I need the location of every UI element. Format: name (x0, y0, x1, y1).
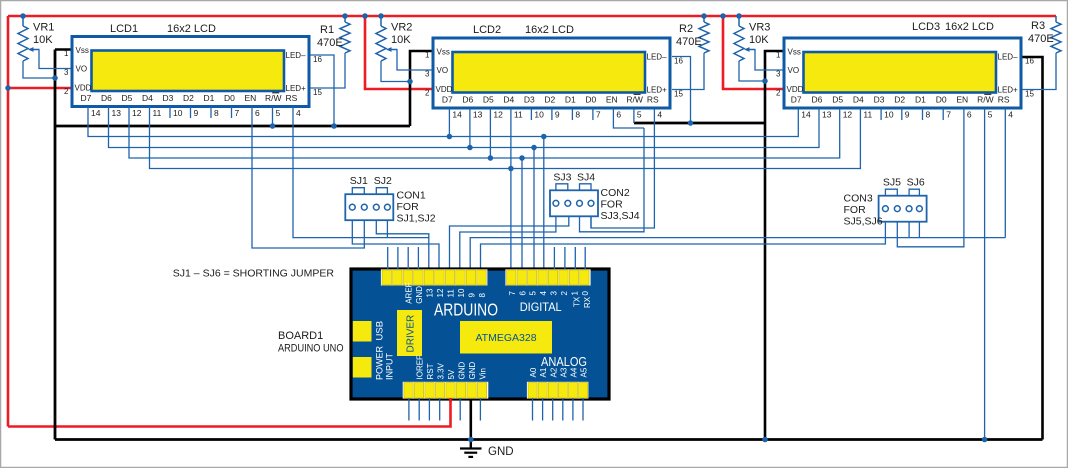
svg-text:11: 11 (446, 289, 455, 298)
svg-text:1: 1 (425, 51, 430, 60)
svg-text:D1: D1 (204, 93, 215, 103)
svg-text:GND: GND (488, 446, 514, 458)
svg-text:D2: D2 (894, 95, 905, 105)
svg-text:GND: GND (458, 362, 467, 380)
svg-text:D7: D7 (442, 95, 453, 105)
wire Arduino pin6 to D5 bus (521, 158, 523, 270)
node LCD2 p13/D6 junction (467, 145, 473, 151)
svg-text:LCD3: LCD3 (912, 21, 940, 33)
svg-text:3: 3 (64, 68, 69, 77)
svg-text:GND: GND (415, 286, 424, 304)
svg-text:VO: VO (76, 65, 88, 74)
wire LCD3 D3 stub (880, 109, 882, 121)
wire LCD2 p11 tap through to Arduino pin7 (510, 109, 512, 270)
svg-text:6: 6 (967, 110, 972, 120)
wire +5V bottom run to Arduino 5V pin (8, 398, 451, 427)
svg-text:13: 13 (425, 288, 434, 297)
wire VR2 wiper to VO2 (397, 50, 434, 71)
svg-text:13: 13 (822, 110, 832, 120)
wire +5V top bus (8, 15, 1056, 18)
wire Arduino pin10 to CON2 pin1 (460, 216, 556, 270)
svg-text:10: 10 (534, 110, 544, 120)
node GND junction at ground symbol (468, 437, 474, 443)
wire EN1 to CON1 pin2 (252, 107, 364, 249)
svg-text:14: 14 (91, 108, 101, 118)
svg-text:VDD: VDD (787, 85, 804, 94)
svg-text:10: 10 (884, 110, 894, 120)
wire CON1 pin1 to Arduino pin12 (352, 220, 439, 270)
node R2/+5V junction (701, 13, 707, 19)
wire CON3 pin4 stub to RS bus (918, 222, 920, 238)
wire VR1 bottom to GND (23, 61, 55, 78)
node R1/+5V junction (342, 13, 348, 19)
svg-text:3: 3 (776, 70, 781, 79)
wire EN bus (Arduino pin8 - CON3 pin1) (481, 222, 886, 270)
svg-text:16x2 LCD: 16x2 LCD (167, 23, 216, 35)
wire LED- LCD1 to GND (311, 55, 335, 126)
wire Arduino 5V pin (red stub) (449, 398, 452, 402)
svg-text:470E: 470E (317, 37, 343, 49)
wire Arduino pin5 to D6 bus (533, 148, 535, 270)
svg-text:POWER: POWER (375, 345, 385, 380)
svg-text:LCD2: LCD2 (473, 24, 501, 36)
wire R/W2 to GND (633, 109, 635, 124)
svg-text:R/W: R/W (977, 95, 994, 105)
svg-text:4: 4 (296, 108, 301, 118)
potentiometer VR2 (376, 16, 398, 61)
wire GND Vss2 stub and drop (410, 51, 434, 126)
node GND 765 bottom junction (762, 437, 768, 443)
svg-text:1: 1 (571, 291, 580, 296)
svg-text:EN: EN (956, 95, 968, 105)
svg-text:LED–: LED– (647, 53, 668, 62)
svg-text:15: 15 (1025, 90, 1034, 99)
svg-text:2: 2 (64, 87, 69, 96)
svg-text:VR2: VR2 (391, 22, 412, 34)
wire VDD LCD1 branch (8, 87, 73, 90)
node LED-1/GND junction (331, 123, 337, 129)
svg-text:7: 7 (235, 108, 240, 118)
wire VR3 bottom to GND (739, 61, 765, 81)
wire +5V left vertical (7, 16, 10, 427)
svg-text:16x2 LCD: 16x2 LCD (525, 24, 574, 36)
wire R1 to LED+ LCD1 (311, 53, 346, 88)
svg-text:10K: 10K (33, 34, 53, 46)
wire LCD3 D0 stub (942, 109, 944, 121)
svg-text:A2: A2 (549, 367, 558, 377)
svg-text:BOARD1: BOARD1 (278, 330, 323, 342)
svg-text:4: 4 (539, 291, 548, 296)
wire LCD1 D0 stub (231, 107, 233, 119)
wire R/W3 to GND bottom bus (984, 109, 986, 440)
node LCD2 p14/D7 junction (447, 134, 453, 140)
svg-text:R/W: R/W (626, 95, 643, 105)
svg-text:LED+: LED+ (647, 86, 668, 95)
svg-text:470E: 470E (1028, 33, 1054, 45)
svg-text:D4: D4 (503, 95, 514, 105)
svg-text:D4: D4 (142, 93, 153, 103)
wire LCD2 D1 stub (571, 109, 573, 121)
svg-text:5: 5 (529, 291, 538, 296)
svg-text:FOR: FOR (844, 204, 867, 216)
svg-text:INPUT: INPUT (385, 352, 395, 380)
svg-text:11: 11 (863, 110, 872, 120)
svg-text:D6: D6 (812, 95, 823, 105)
svg-text:10K: 10K (749, 34, 769, 46)
svg-text:RS: RS (647, 95, 659, 105)
svg-text:DRIVER: DRIVER (406, 315, 417, 353)
svg-text:EN: EN (606, 95, 618, 105)
connector CON2 (550, 190, 598, 216)
svg-text:RS: RS (286, 93, 298, 103)
wire GND Arduino GND pin drop (469, 398, 472, 440)
svg-text:2: 2 (560, 291, 569, 296)
node VR2/GND junction (407, 79, 413, 85)
svg-text:LCD1: LCD1 (110, 23, 138, 35)
svg-text:5: 5 (988, 110, 993, 120)
resistor R1 470E (340, 16, 350, 53)
svg-text:R3: R3 (1031, 20, 1045, 32)
svg-text:470E: 470E (676, 36, 702, 48)
svg-text:14: 14 (452, 110, 462, 120)
svg-text:D3: D3 (524, 95, 535, 105)
wire LCD2 D0 stub (592, 109, 594, 121)
svg-text:10K: 10K (391, 34, 411, 46)
svg-text:SJ5,SJ6: SJ5,SJ6 (844, 216, 883, 228)
svg-text:RX: RX (583, 296, 592, 308)
wire CON1 pin3 to Arduino pin13 (376, 220, 429, 270)
LCD module LCD2 (433, 38, 670, 108)
svg-text:9: 9 (194, 108, 199, 118)
svg-text:2: 2 (425, 89, 430, 98)
svg-text:10: 10 (457, 288, 466, 297)
svg-text:Vss: Vss (788, 48, 801, 57)
node VR2/+5V junction (378, 13, 384, 19)
svg-text:7: 7 (946, 110, 951, 120)
wire GND Vss3 stub and long drop (765, 51, 785, 440)
wire CON2 pin3 to EN2 (580, 128, 645, 232)
svg-text:0: 0 (581, 291, 590, 296)
svg-text:D3: D3 (874, 95, 885, 105)
svg-text:Vin: Vin (479, 368, 488, 379)
svg-text:AREF: AREF (404, 282, 413, 303)
svg-text:D2: D2 (183, 93, 194, 103)
wire LCD2 D3 stub (530, 109, 532, 121)
svg-text:A1: A1 (539, 367, 548, 377)
svg-text:SJ6: SJ6 (907, 177, 925, 189)
wire R2 to LED+ LCD2 (672, 53, 704, 90)
svg-text:SJ3,SJ4: SJ3,SJ4 (601, 210, 640, 222)
wire RS bus (Arduino pin9 - RS3) (470, 238, 1005, 270)
Arduino unconnected top-left stubs (387, 247, 389, 270)
svg-text:SJ1,SJ2: SJ1,SJ2 (397, 213, 436, 225)
svg-text:15: 15 (313, 88, 322, 97)
svg-text:SJ4: SJ4 (577, 171, 595, 183)
wire LCD2 D2 stub (551, 109, 553, 121)
svg-text:8: 8 (926, 110, 931, 120)
wire GND mid bus left segment (55, 125, 410, 128)
wire LCD1 D3 stub (169, 107, 171, 119)
svg-text:VO: VO (437, 66, 449, 75)
wire D7 bus (LCD1 p14 - LCD3 p14) (88, 107, 798, 137)
svg-text:11: 11 (514, 110, 523, 120)
resistor R2 470E (699, 16, 709, 53)
svg-text:LED+: LED+ (286, 84, 307, 93)
svg-text:9: 9 (555, 110, 560, 120)
svg-text:3.3V: 3.3V (437, 362, 446, 379)
svg-text:D4: D4 (853, 95, 864, 105)
svg-text:TX: TX (572, 296, 581, 307)
svg-text:7: 7 (596, 110, 601, 120)
svg-text:SJ3: SJ3 (553, 171, 571, 183)
node LED-2/GND junction (688, 120, 694, 126)
svg-text:8: 8 (575, 110, 580, 120)
wire Arduino pin11 to CON2 pin2 (450, 216, 569, 270)
svg-text:A4: A4 (570, 367, 579, 377)
svg-text:R1: R1 (320, 24, 334, 36)
svg-text:7: 7 (508, 291, 517, 296)
svg-text:VR1: VR1 (33, 22, 54, 34)
svg-text:6: 6 (518, 291, 527, 296)
svg-text:Vss: Vss (76, 46, 89, 55)
svg-text:9: 9 (467, 293, 476, 298)
svg-text:CON1: CON1 (397, 190, 426, 202)
svg-text:2: 2 (776, 89, 781, 98)
wire GND mid bus right segment (634, 122, 765, 125)
wire D5 bus (LCD1 p12 - LCD3 p12) (129, 107, 840, 159)
svg-text:DIGITAL: DIGITAL (520, 300, 562, 314)
node R/W3/GND junction (982, 437, 988, 443)
svg-text:D2: D2 (544, 95, 555, 105)
svg-text:6: 6 (616, 110, 621, 120)
svg-text:12: 12 (132, 108, 142, 118)
connector CON3 (879, 196, 927, 222)
svg-text:12: 12 (436, 288, 445, 297)
node VR3/GND junction (762, 78, 768, 84)
node LCD2 p11/D4/pin7 junction (508, 166, 514, 172)
svg-text:ARDUINO UNO: ARDUINO UNO (278, 343, 344, 355)
Arduino analog stubs (532, 398, 534, 421)
wire RS1 line (293, 107, 429, 238)
node +5V/VDD3 junction (720, 13, 726, 19)
resistor R3 470E (1051, 16, 1061, 53)
svg-text:D0: D0 (585, 95, 596, 105)
potentiometer VR1 (18, 16, 40, 61)
node pin6/D5 junction (519, 155, 525, 161)
svg-text:VO: VO (788, 66, 800, 75)
svg-text:A0: A0 (529, 367, 538, 377)
potentiometer VR3 (734, 16, 756, 61)
svg-text:16: 16 (313, 55, 322, 64)
svg-text:D1: D1 (565, 95, 576, 105)
wire LCD2 p13 tap (469, 109, 471, 148)
svg-text:D7: D7 (791, 95, 802, 105)
svg-text:13: 13 (473, 110, 483, 120)
svg-text:D0: D0 (224, 93, 235, 103)
svg-text:LED–: LED– (286, 51, 307, 60)
wire LCD3 D2 stub (901, 109, 903, 121)
svg-text:D7: D7 (81, 93, 92, 103)
Arduino Uno board BOARD1 (351, 269, 609, 399)
node +5V/VDD2 junction (362, 13, 368, 19)
wire CON1 pin4 to RS1 line (386, 220, 388, 238)
svg-text:D5: D5 (483, 95, 494, 105)
svg-text:CON3: CON3 (844, 193, 873, 205)
wire RS2 riser (591, 109, 654, 229)
wire GND right vertical (LED- LCD3) (1022, 57, 1043, 440)
svg-text:CON2: CON2 (601, 187, 630, 199)
svg-text:VR3: VR3 (749, 22, 770, 34)
wire LCD1 D1 stub (210, 107, 212, 119)
wire VR2 bottom to GND (381, 61, 410, 82)
svg-text:SJ5: SJ5 (883, 177, 901, 189)
svg-text:LED+: LED+ (998, 86, 1019, 95)
wire EN2 riser (613, 109, 644, 129)
node VR3/+5V junction (736, 13, 742, 19)
svg-text:8: 8 (214, 108, 219, 118)
svg-text:R/W: R/W (265, 93, 282, 103)
svg-text:1: 1 (776, 51, 781, 60)
wire GND left vertical (54, 50, 57, 440)
svg-text:10: 10 (173, 108, 183, 118)
svg-text:RST: RST (426, 363, 435, 379)
svg-text:EN: EN (245, 93, 257, 103)
svg-text:D0: D0 (936, 95, 947, 105)
svg-text:VDD: VDD (436, 85, 453, 94)
wire VR3 wiper to VO3 (755, 50, 785, 71)
wire EN3 riser to CON3 pin2 (897, 109, 964, 247)
svg-text:R2: R2 (679, 23, 693, 35)
wire GND bottom bus (55, 438, 1043, 441)
wire Arduino pin4 to D7 bus (543, 137, 545, 270)
wire R/W1 to GND (272, 107, 274, 127)
svg-text:A3: A3 (559, 367, 568, 377)
ground symbol (470, 440, 472, 449)
svg-text:11: 11 (153, 108, 162, 118)
svg-text:9: 9 (905, 110, 910, 120)
node VR1/GND junction (52, 75, 58, 81)
svg-text:4: 4 (1008, 110, 1013, 120)
wire VR1 wiper to VO1 (39, 50, 73, 69)
svg-text:GND: GND (468, 362, 477, 380)
node pin5/D6 junction (531, 145, 537, 151)
svg-text:Vss: Vss (437, 48, 450, 57)
svg-text:16x2 LCD: 16x2 LCD (945, 21, 994, 33)
LCD module LCD3 (784, 38, 1021, 108)
svg-text:D6: D6 (101, 93, 112, 103)
svg-text:5: 5 (637, 110, 642, 120)
svg-text:5: 5 (276, 108, 281, 118)
connector CON1 (345, 194, 393, 220)
svg-text:ARDUINO: ARDUINO (434, 300, 498, 320)
wire RS3 riser joins RS bus (1004, 109, 1006, 238)
node pin4/D7 junction (541, 134, 547, 140)
node LCD2 p12/D5 junction (488, 155, 494, 161)
wire D4 bus (LCD1 p11 - LCD3 p11) (150, 107, 861, 169)
svg-text:16: 16 (1025, 57, 1034, 66)
svg-text:D5: D5 (122, 93, 133, 103)
wire CON2 pin4 to RS2 (590, 216, 592, 228)
wire GND Vss1 stub (55, 48, 73, 51)
svg-text:A5: A5 (580, 367, 589, 377)
wire LED- LCD2 to GND (672, 57, 691, 124)
svg-text:5V: 5V (447, 369, 456, 379)
wire VDD LCD3 branch (723, 16, 785, 89)
svg-text:14: 14 (801, 110, 811, 120)
svg-text:13: 13 (112, 108, 122, 118)
svg-text:15: 15 (674, 90, 683, 99)
Arduino unconnected top-right stubs (553, 247, 555, 270)
node VR1/+5V junction (20, 13, 26, 19)
wire LCD2 p14 tap (448, 109, 450, 137)
svg-text:D1: D1 (915, 95, 926, 105)
svg-text:RS: RS (998, 95, 1010, 105)
svg-text:8: 8 (478, 293, 487, 298)
svg-text:USB: USB (375, 321, 386, 341)
svg-text:3: 3 (550, 291, 559, 296)
svg-text:FOR: FOR (397, 201, 420, 213)
svg-text:16: 16 (674, 57, 683, 66)
svg-text:6: 6 (255, 108, 260, 118)
svg-text:12: 12 (493, 110, 503, 120)
wire CON3 pin3 stub to RS bus (908, 222, 910, 238)
wire R3 to LED+ LCD3 (1022, 53, 1056, 90)
svg-text:LED–: LED– (998, 53, 1019, 62)
svg-text:D5: D5 (832, 95, 843, 105)
wire LCD3 D1 stub (922, 109, 924, 121)
svg-text:VDD: VDD (75, 84, 92, 93)
svg-text:SJ1 – SJ6 = SHORTING JUMPER: SJ1 – SJ6 = SHORTING JUMPER (173, 268, 335, 280)
wire LCD2 p12 tap (489, 109, 491, 159)
svg-text:SJ1: SJ1 (350, 175, 368, 187)
svg-text:IOREF: IOREF (416, 355, 425, 380)
Arduino bottom-left stubs (408, 398, 410, 421)
svg-text:D3: D3 (163, 93, 174, 103)
svg-text:12: 12 (843, 110, 853, 120)
svg-text:3: 3 (425, 70, 430, 79)
svg-text:1: 1 (64, 49, 69, 58)
wire LCD1 D2 stub (190, 107, 192, 119)
svg-text:FOR: FOR (601, 199, 624, 211)
node +5V/VDD1 junction (5, 85, 11, 91)
svg-text:SJ2: SJ2 (374, 175, 392, 187)
svg-text:4: 4 (657, 110, 662, 120)
node R/W1/GND junction (270, 123, 276, 129)
wire D6 bus (LCD1 p13 - LCD3 p13) (109, 107, 820, 148)
svg-text:D6: D6 (462, 95, 473, 105)
wire VDD LCD2 branch (365, 16, 434, 89)
svg-text:ATMEGA328: ATMEGA328 (475, 332, 536, 344)
svg-text:ANALOG: ANALOG (541, 355, 587, 369)
LCD module LCD1 (72, 37, 309, 107)
